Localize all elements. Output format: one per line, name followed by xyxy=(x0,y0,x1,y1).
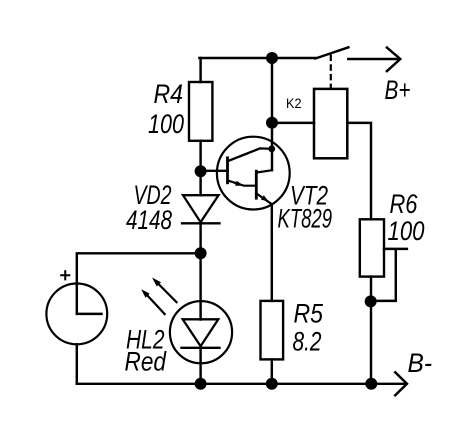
svg-text:KT829: KT829 xyxy=(278,203,333,233)
wire diode cathode to node xyxy=(199,222,201,253)
diode VD2 xyxy=(182,195,220,223)
wire emitter lead to R5 xyxy=(271,204,273,301)
transistor Q1 emitter arrowhead xyxy=(235,181,243,186)
node dot relay branch xyxy=(266,117,278,129)
transistor Q1 emitter xyxy=(228,180,257,185)
node dot collector xyxy=(268,145,275,152)
switch K2.1 blade xyxy=(315,47,348,58)
svg-text:B-: B- xyxy=(408,348,433,378)
transistor Q1 collector xyxy=(228,148,272,161)
wire base lead xyxy=(201,170,228,172)
resistor R5 body xyxy=(261,301,284,360)
transistor VT2 circle xyxy=(217,137,290,210)
wire node to source G1 xyxy=(77,253,201,314)
arrow B+ head xyxy=(387,48,400,72)
transistor Q2 collector xyxy=(256,170,272,172)
node dot base xyxy=(195,165,207,177)
source G1 circle xyxy=(46,284,107,345)
svg-text:100: 100 xyxy=(148,109,184,139)
wire collector branch xyxy=(271,58,273,170)
LED arrow 2 head xyxy=(141,289,150,298)
svg-text:R4: R4 xyxy=(154,79,184,109)
wire bottom rail xyxy=(77,383,406,385)
LED light arrow 1 shaft xyxy=(159,284,177,302)
wire R4 bottom lead to diode xyxy=(199,141,201,195)
wire relay right lead to R6 xyxy=(347,123,371,219)
svg-text:100: 100 xyxy=(388,216,425,246)
wire B+ arrow line xyxy=(348,58,398,60)
wire LED top lead xyxy=(199,253,201,319)
resistor R6 body xyxy=(360,219,384,276)
relay K2 coil xyxy=(314,89,347,158)
LED HL2 circle xyxy=(170,301,232,363)
wire relay left lead xyxy=(272,122,314,124)
wire R5 bottom lead xyxy=(271,359,273,383)
wire top rail xyxy=(199,57,315,59)
resistor R1 body R4 xyxy=(189,82,212,141)
node dot LED bottom rail xyxy=(195,378,207,390)
LED arrow 1 head xyxy=(152,278,161,287)
wire R6 tap xyxy=(371,249,407,301)
svg-text:R6: R6 xyxy=(390,189,418,219)
wire R6 bottom lead xyxy=(370,277,372,384)
svg-text:K2: K2 xyxy=(286,96,302,111)
LED light arrow 2 shaft xyxy=(148,296,165,314)
relay dashed link xyxy=(330,55,332,89)
transistor Q2 base bar xyxy=(255,171,258,198)
transistor Q1 base bar xyxy=(226,158,229,183)
plus sign xyxy=(61,271,69,279)
LED HL2 triangle xyxy=(182,319,220,348)
svg-text:B+: B+ xyxy=(385,75,411,105)
transistor Q2 emitter arrowhead xyxy=(261,195,269,202)
svg-text:Red: Red xyxy=(125,346,168,376)
arrow B- head xyxy=(395,372,407,395)
node dot diode bottom xyxy=(195,247,207,259)
wire LED bottom lead xyxy=(199,348,201,384)
node dot top rail xyxy=(266,52,278,64)
node dot R6 bottom rail xyxy=(365,378,377,390)
node dot R5 bottom rail xyxy=(266,378,278,390)
transistor Q2 emitter xyxy=(256,193,272,204)
wire R4 top lead xyxy=(199,58,201,82)
wire source bottom lead xyxy=(76,344,78,384)
svg-text:R5: R5 xyxy=(294,299,324,329)
svg-text:4148: 4148 xyxy=(126,205,172,235)
svg-text:8.2: 8.2 xyxy=(293,327,322,357)
node dot R6 tap xyxy=(365,295,377,307)
